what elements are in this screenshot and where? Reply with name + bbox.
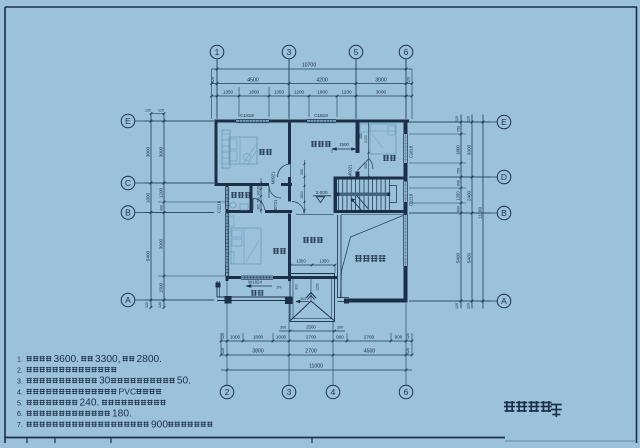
svg-text:7.: 7.	[17, 422, 23, 429]
svg-text:A: A	[501, 296, 507, 306]
svg-text:2%: 2%	[277, 286, 282, 290]
svg-text:4.: 4.	[17, 389, 23, 396]
svg-text:5400: 5400	[146, 250, 151, 261]
svg-text:1: 1	[215, 47, 220, 57]
svg-text:3.: 3.	[17, 378, 23, 385]
svg-text:1800: 1800	[253, 335, 264, 340]
svg-text:3900: 3900	[159, 146, 164, 157]
svg-text:120: 120	[145, 109, 151, 113]
svg-text:3: 3	[287, 387, 292, 397]
svg-text:1800: 1800	[456, 145, 461, 155]
svg-text:5.: 5.	[17, 400, 23, 407]
svg-text:1500: 1500	[159, 282, 164, 293]
svg-text:1350: 1350	[223, 90, 234, 95]
svg-text:120: 120	[158, 302, 162, 308]
svg-text:3800: 3800	[252, 349, 264, 355]
svg-text:1800: 1800	[317, 90, 328, 95]
svg-text:1000: 1000	[230, 335, 241, 340]
svg-text:1.: 1.	[17, 357, 23, 364]
svg-text:5400: 5400	[456, 252, 461, 263]
svg-text:1200: 1200	[341, 90, 352, 95]
svg-text:300: 300	[160, 205, 164, 211]
svg-text:600: 600	[457, 180, 461, 186]
svg-text:M0921: M0921	[348, 164, 353, 177]
svg-text:5: 5	[354, 47, 359, 57]
svg-text:1200: 1200	[294, 90, 305, 95]
svg-text:30: 30	[99, 376, 111, 387]
svg-text:6.: 6.	[17, 411, 23, 418]
svg-text:1800: 1800	[249, 90, 260, 95]
svg-text:180.: 180.	[112, 409, 132, 420]
svg-text:2700: 2700	[306, 335, 317, 340]
svg-text:E: E	[501, 117, 507, 127]
svg-text:240.: 240.	[80, 398, 100, 409]
svg-text:50.: 50.	[177, 376, 191, 387]
svg-text:120: 120	[145, 302, 149, 308]
svg-text:3.600: 3.600	[315, 190, 327, 196]
svg-text:D: D	[501, 172, 507, 182]
svg-text:3300: 3300	[467, 144, 472, 155]
svg-text:3600.: 3600.	[54, 354, 80, 365]
svg-text:600: 600	[457, 206, 461, 212]
svg-text:6: 6	[404, 387, 409, 397]
svg-text:C: C	[125, 178, 131, 188]
svg-text:M0721: M0721	[273, 199, 278, 212]
svg-text:900: 900	[151, 419, 168, 430]
svg-text:B: B	[125, 207, 131, 217]
svg-text:2500: 2500	[306, 325, 316, 330]
svg-text:2.: 2.	[17, 368, 23, 375]
svg-text:E: E	[125, 116, 131, 126]
svg-text:M0921: M0921	[271, 171, 276, 184]
svg-text:2800.: 2800.	[137, 354, 163, 365]
svg-text:120: 120	[158, 109, 164, 113]
svg-text:3000: 3000	[375, 78, 387, 84]
svg-text:4: 4	[331, 387, 336, 397]
svg-text:300: 300	[257, 184, 261, 190]
svg-text:1350: 1350	[274, 90, 285, 95]
svg-text:3000: 3000	[376, 90, 387, 95]
svg-text:1000: 1000	[276, 335, 287, 340]
svg-text:300: 300	[295, 284, 299, 290]
svg-text:120: 120	[221, 333, 225, 339]
svg-text:3300,: 3300,	[95, 354, 121, 365]
svg-text:C1818: C1818	[240, 113, 254, 118]
svg-text:2100: 2100	[364, 135, 368, 143]
svg-text:900: 900	[336, 335, 344, 340]
svg-text:11000: 11000	[309, 364, 323, 370]
svg-text:1200: 1200	[159, 187, 164, 198]
svg-text:2400: 2400	[467, 190, 472, 201]
svg-text:1200: 1200	[456, 191, 461, 201]
svg-text:PVC: PVC	[119, 386, 137, 396]
svg-text:5400: 5400	[467, 252, 472, 263]
svg-text:2700: 2700	[305, 349, 317, 355]
svg-text:1350: 1350	[319, 259, 329, 264]
svg-text:120: 120	[406, 333, 410, 339]
svg-text:900: 900	[300, 169, 304, 175]
svg-text:120: 120	[467, 303, 471, 309]
svg-text:120: 120	[455, 116, 459, 122]
svg-text:900: 900	[364, 163, 368, 169]
svg-text:10700: 10700	[302, 63, 317, 69]
svg-text:4500: 4500	[247, 78, 259, 84]
svg-text:300: 300	[337, 326, 343, 330]
svg-text:A: A	[125, 295, 131, 305]
svg-text:780: 780	[257, 197, 261, 203]
svg-text:120: 120	[407, 77, 411, 83]
svg-text:360: 360	[257, 204, 261, 210]
svg-text:4500: 4500	[364, 349, 376, 355]
svg-text:3900: 3900	[146, 146, 151, 157]
svg-text:B: B	[501, 208, 507, 218]
svg-text:900: 900	[257, 190, 261, 196]
svg-text:200: 200	[359, 133, 363, 139]
svg-text:1800: 1800	[300, 191, 304, 199]
svg-text:W1824: W1824	[248, 280, 262, 285]
svg-text:6: 6	[404, 47, 409, 57]
svg-text:750: 750	[457, 126, 461, 132]
svg-text:120: 120	[455, 303, 459, 309]
svg-text:1800: 1800	[146, 192, 151, 203]
svg-text:1500: 1500	[339, 142, 349, 147]
svg-text:4200: 4200	[316, 78, 328, 84]
svg-text:3: 3	[287, 47, 292, 57]
svg-text:120: 120	[406, 348, 410, 354]
svg-text:C1818: C1818	[314, 113, 328, 118]
svg-text:900: 900	[395, 335, 403, 340]
svg-text:C1216: C1216	[217, 200, 222, 213]
svg-text:2: 2	[225, 387, 230, 397]
svg-text:2700: 2700	[364, 335, 375, 340]
svg-text:1250: 1250	[316, 283, 320, 291]
svg-text:C1218: C1218	[409, 193, 414, 206]
svg-text:120: 120	[467, 116, 471, 122]
svg-text:300: 300	[280, 326, 286, 330]
svg-text:C1818: C1818	[409, 145, 414, 158]
svg-text:304: 304	[300, 297, 306, 301]
svg-text:3900: 3900	[159, 238, 164, 249]
svg-text:1350: 1350	[296, 259, 306, 264]
svg-text:120: 120	[221, 348, 225, 354]
svg-text:750: 750	[457, 168, 461, 174]
